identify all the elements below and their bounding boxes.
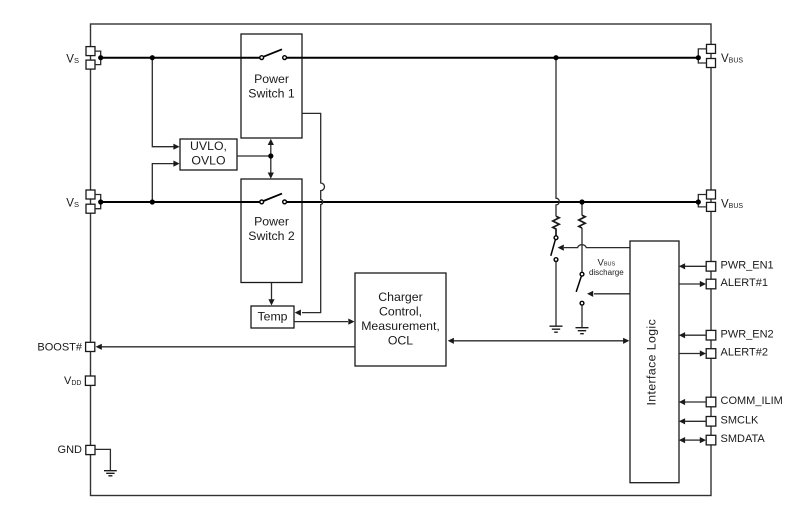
pin SMDATA (bidirectional) <box>706 435 716 445</box>
svg-text:OVLO: OVLO <box>191 154 225 168</box>
pin ALERT#1 <box>706 279 716 289</box>
ground (GND pin) <box>104 471 117 476</box>
svg-text:ALERT#1: ALERT#1 <box>721 277 769 289</box>
wire: VS second pin bracket <box>95 195 101 209</box>
pin ALERT#2 <box>706 349 716 359</box>
wire: UVLO output to power switches <box>237 155 271 157</box>
wire: Power Switch 2 to Temp <box>271 283 273 300</box>
pin VBUS (second) squares <box>707 190 716 199</box>
node: VBUS second pin junction <box>696 199 701 204</box>
svg-text:PWR_EN2: PWR_EN2 <box>721 328 774 340</box>
block: Temp sensor <box>251 306 294 328</box>
wire: BOOST# from Charger Control to pin <box>101 346 356 348</box>
switch S2 inside Power Switch 2 <box>264 194 283 201</box>
wire: VS1 trunk from pin VS to Power Switch 1 <box>101 57 261 59</box>
block: Charger Control, Measurement, OCL <box>355 273 446 366</box>
pin COMM_ILIM <box>706 397 716 407</box>
pin BOOST# square <box>86 342 95 351</box>
node: VS second pin junction <box>98 199 103 204</box>
wire: Power Switch 1 tap to Temp (with hops) <box>302 113 325 312</box>
wire: Temp to Charger Control <box>294 321 348 323</box>
wire: VS2 trunk from pin VS to Power Switch 2 <box>101 201 261 203</box>
svg-text:Charger: Charger <box>378 290 422 304</box>
pin VBUS (top) squares <box>707 44 716 53</box>
resistor R2 <box>579 215 585 228</box>
wire: VBUS1 trunk from Power Switch 1 to pin VBUS <box>286 57 698 59</box>
pin GND square <box>86 445 95 454</box>
block: Interface Logic <box>630 241 679 483</box>
svg-text:SMCLK: SMCLK <box>721 414 760 426</box>
svg-text:GND: GND <box>58 444 83 456</box>
svg-text:OCL: OCL <box>388 333 413 347</box>
node: junction UVLO output <box>268 153 273 158</box>
svg-text:Switch 1: Switch 1 <box>248 87 295 101</box>
wire: VS2 stub inside Power Switch 2 <box>241 201 303 203</box>
resistor R1 <box>553 216 559 236</box>
wire: VBUS second pin bracket <box>698 195 706 207</box>
wire: VS top pin bracket <box>95 51 101 65</box>
wire: VBUS top pin bracket <box>698 49 706 63</box>
wire: GND pin to ground symbol <box>95 449 110 470</box>
switch S1 inside Power Switch 1 <box>264 49 283 56</box>
block: UVLO, OVLO <box>180 139 237 170</box>
svg-text:Temp: Temp <box>257 310 287 324</box>
wire: discharge resistor 1 drop from VBUS1 (hop over VBUS2 line) <box>556 58 559 217</box>
wire: discharge resistor 2 drop from VBUS2 <box>581 202 583 215</box>
wire: Interface Logic to switch SW1 control (hop over R2 line) <box>564 245 630 248</box>
pin VS (top) squares <box>86 47 95 56</box>
node: VBUS top pin junction <box>696 55 701 60</box>
pin PWR_EN2 <box>706 330 716 340</box>
svg-text:UVLO,: UVLO, <box>190 139 227 153</box>
chip outline U1 <box>91 24 712 496</box>
svg-text:BOOST#: BOOST# <box>37 342 83 354</box>
wire: VBUS2 trunk from Power Switch 2 to pin VBUS <box>286 201 698 203</box>
ground (VBUS2 discharge) <box>576 328 589 334</box>
node: junction VBUS1/discharge <box>553 55 558 60</box>
svg-text:discharge: discharge <box>589 268 624 277</box>
wire: Charger Control to Interface Logic (bidirectional) <box>453 340 625 342</box>
svg-text:Switch 2: Switch 2 <box>248 229 295 243</box>
wire: switch SW1 to ground <box>555 262 557 326</box>
svg-text:Control,: Control, <box>379 304 422 318</box>
svg-text:COMM_ILIM: COMM_ILIM <box>721 395 783 407</box>
switch SW1 (VBUS1 discharge) <box>554 236 558 240</box>
node: junction VS2/UVLO <box>150 199 155 204</box>
pin PWR_EN1 <box>706 262 716 272</box>
svg-text:VS: VS <box>66 197 79 209</box>
svg-text:Interface Logic: Interface Logic <box>645 319 659 406</box>
node: junction VBUS2/discharge <box>579 199 584 204</box>
svg-text:PWR_EN1: PWR_EN1 <box>721 259 774 271</box>
wire: UVLO feed from VS1 node <box>152 58 173 147</box>
svg-text:Power: Power <box>254 214 289 228</box>
svg-text:Measurement,: Measurement, <box>361 319 440 333</box>
wire: VS1 stub inside Power Switch 1 <box>241 57 303 59</box>
svg-text:SMDATA: SMDATA <box>721 433 766 445</box>
svg-text:ALERT#2: ALERT#2 <box>721 347 769 359</box>
wire: UVLO feed from VS2 node <box>152 164 173 202</box>
switch SW2 (VBUS2 discharge) <box>580 272 584 276</box>
svg-text:VS: VS <box>66 54 79 66</box>
svg-text:Power: Power <box>254 72 289 86</box>
block: Power Switch 1 <box>241 34 302 138</box>
wire: Interface Logic to switch SW2 control <box>594 293 630 295</box>
node: junction VS1/UVLO <box>150 55 155 60</box>
pin VS (second) squares <box>86 190 95 199</box>
pin SMCLK <box>706 417 716 427</box>
pin VDD square <box>85 376 95 385</box>
node: VS top pin junction <box>98 55 103 60</box>
block: Power Switch 2 <box>241 179 302 283</box>
wire: switch SW2 to ground <box>581 305 583 327</box>
ground (VBUS1 discharge) <box>550 326 563 332</box>
